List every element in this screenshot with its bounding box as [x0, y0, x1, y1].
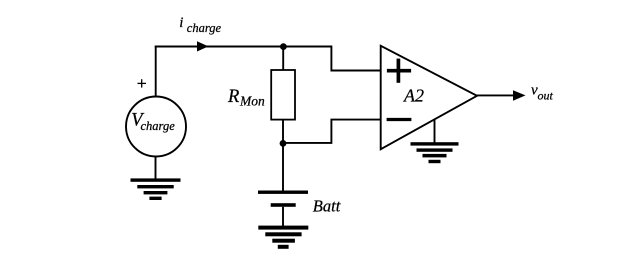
node junction top	[280, 43, 287, 50]
wire battery to ground	[282, 207, 284, 227]
wire op-amp ground stem	[434, 120, 436, 144]
label icharge	[179, 15, 221, 35]
node junction bottom	[280, 140, 287, 147]
wire from Vcharge top to top rail corner	[155, 46, 157, 97]
wire bottom node to minus input	[282, 120, 381, 143]
current arrow icharge	[197, 41, 208, 51]
wire op-amp output	[477, 94, 515, 96]
output arrowhead	[513, 90, 526, 101]
svg-text:out: out	[538, 89, 554, 103]
resistor RMon	[271, 70, 295, 120]
svg-text:i: i	[179, 15, 183, 31]
label Vcharge	[131, 111, 175, 134]
op-amp plus input symbol	[387, 59, 411, 83]
svg-text:A2: A2	[403, 86, 424, 106]
plus polarity mark	[138, 79, 147, 87]
svg-text:Batt: Batt	[313, 197, 341, 216]
svg-text:R: R	[227, 87, 239, 107]
ground (battery)	[258, 226, 308, 249]
battery Batt	[258, 191, 308, 207]
label vout	[531, 83, 554, 103]
label RMon	[227, 87, 265, 109]
wire Vcharge bottom to ground	[155, 157, 157, 181]
op-amp minus input symbol	[387, 118, 412, 121]
svg-text:charge: charge	[141, 119, 176, 133]
label Batt	[313, 197, 341, 216]
voltage source Vcharge	[126, 97, 186, 157]
wire junction to resistor top	[282, 46, 284, 70]
wire resistor bottom through node to battery	[282, 119, 284, 191]
wire top rail	[155, 46, 332, 48]
ground (op-amp)	[411, 142, 459, 163]
ground (source)	[131, 178, 181, 200]
svg-text:charge: charge	[187, 21, 222, 35]
wire top rail corner down to plus input level	[331, 46, 380, 71]
op-amp A2 triangle	[381, 46, 477, 149]
label A2	[403, 86, 424, 106]
svg-text:Mon: Mon	[239, 94, 265, 109]
